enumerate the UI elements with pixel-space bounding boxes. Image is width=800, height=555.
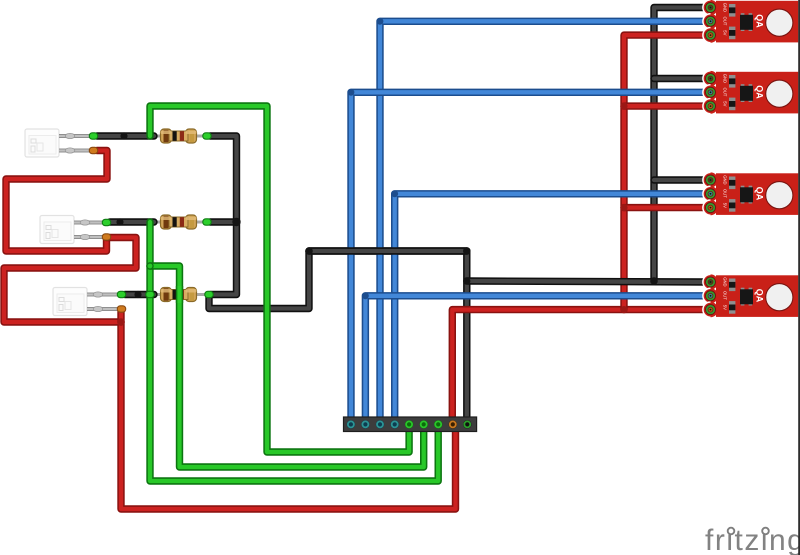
module U4 (QA sensor board) (703, 274, 798, 317)
svg-text:5V: 5V (723, 30, 728, 35)
wire green signal3 to header pin6 (150, 266, 424, 467)
resistor R2 leads (150, 221, 208, 224)
sensor J1 (white 2-pin component) (25, 129, 90, 157)
sensor J3 (white 2-pin component) (53, 288, 118, 316)
wire blue header pin1 to module2 OUT (351, 92, 706, 425)
wire black GND horizontal over risers (309, 247, 467, 254)
svg-text:OUT: OUT (723, 17, 728, 26)
wire black GND riser to module1 (654, 8, 706, 282)
wire black GND stub module3 (654, 176, 706, 183)
wire blue header pin4 to module3 OUT (395, 194, 706, 425)
resistor R3 leads (150, 293, 208, 296)
svg-text:OUT: OUT (723, 88, 728, 97)
node blue bendpoints (348, 18, 399, 299)
svg-text:5V: 5V (723, 203, 728, 208)
module U2 (QA sensor board) (703, 71, 798, 114)
svg-text:QA: QA (755, 187, 765, 201)
svg-text:fritzing: fritzing (705, 524, 800, 555)
connector header JP1 (9-pin) (344, 417, 477, 432)
module U3 (QA sensor board) (703, 172, 798, 215)
wire black GND run to header pin9 (209, 251, 467, 421)
resistor R1 (161, 129, 197, 143)
wire black GND stub module2 (654, 75, 706, 82)
label fritzing watermark (705, 524, 800, 555)
svg-text:QA: QA (755, 14, 765, 28)
wire black R1-R3 output bus (210, 136, 237, 295)
svg-text:GND: GND (723, 74, 728, 83)
resistor R3 (161, 288, 197, 302)
wire black GND to module4 (467, 281, 706, 282)
resistor R1 leads (150, 135, 208, 138)
svg-text:5V: 5V (723, 305, 728, 310)
wire black J1.1 to R1 (97, 132, 154, 139)
sensor J2 (white 2-pin component) (40, 216, 105, 244)
wire green signal1 to header pin5 (150, 106, 409, 452)
wire red header pin8 to module4 5V (452, 310, 706, 421)
junction black GND (463, 277, 658, 285)
svg-text:OUT: OUT (723, 189, 728, 198)
border right edge (798, 0, 800, 555)
node GND bendpoints (305, 247, 470, 255)
wire green signal2 to header pin7 (150, 222, 438, 481)
svg-text:OUT: OUT (723, 291, 728, 300)
svg-text:5V: 5V (723, 101, 728, 106)
module U1 (QA sensor board) (703, 0, 798, 43)
svg-text:GND: GND (723, 277, 728, 286)
wire black J3.1 to R3 (125, 291, 154, 298)
wire red 5V stub module3 (624, 204, 706, 211)
wire green over R3 (176, 286, 183, 303)
wire red stub J3 bottom leg (117, 310, 124, 322)
wire black R2 output stub (210, 218, 237, 225)
wire red J1 to J2 power loop (6, 151, 107, 252)
wire red J2/J3 power run to header pin8 (4, 238, 456, 510)
resistor R2 (161, 215, 197, 229)
svg-text:QA: QA (755, 85, 765, 99)
wire blue header pin2 to module4 OUT (365, 296, 706, 425)
node bendpoints black (116, 132, 240, 298)
junction red 5V taps (117, 103, 627, 326)
wire red 5V stub module2 (624, 102, 706, 109)
node green T junction (146, 262, 154, 270)
svg-text:QA: QA (755, 289, 765, 303)
wire red 5V riser to module1 (624, 35, 706, 310)
node connection endpoints (89, 133, 213, 312)
svg-text:GND: GND (723, 3, 728, 12)
wire blue header pin3 to module1 OUT (380, 21, 706, 425)
svg-text:GND: GND (723, 175, 728, 184)
wire black J2.1 to R2 (110, 218, 154, 225)
